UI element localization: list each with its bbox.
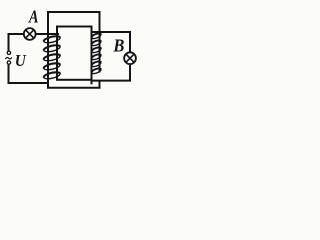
primary coil L1 (5 turns on left limb) loops [43, 35, 60, 80]
secondary coil L2 (6 turns on right limb) loops [91, 32, 102, 74]
svg-text:A: A [28, 7, 38, 27]
AC source U terminal (bottom circle) [7, 61, 10, 64]
AC source U terminal (top circle) [7, 51, 10, 54]
svg-text:B: B [112, 36, 124, 56]
AC source tilde symbol [5, 57, 11, 59]
wire: secondary top lead to lamp B [92, 32, 131, 53]
svg-text:U: U [15, 51, 27, 70]
wire: bottom-left horizontal to transformer [9, 82, 49, 84]
primary coil L1 (5 turns on left limb) front (lower-arc) strokes [44, 36, 60, 77]
wire: left vertical from lamp A corner down to AC source top terminal [8, 34, 10, 51]
lamp A (circle with X) [24, 28, 36, 40]
transformer core outer rectangle [48, 12, 100, 88]
transformer core inner rectangle [57, 27, 92, 80]
secondary coil L2 (6 turns on right limb) front (lower-arc) strokes [92, 33, 101, 72]
lamp B (circle with X) [124, 52, 136, 64]
wire: left vertical from AC source bottom terminal to bottom corner [8, 64, 10, 83]
wire: inner core right edge stub below return wire [91, 80, 93, 83]
wire: top-left horizontal from source corner to primary top [9, 33, 59, 35]
wire: lamp B bottom lead down and left to secondary return [92, 64, 130, 81]
